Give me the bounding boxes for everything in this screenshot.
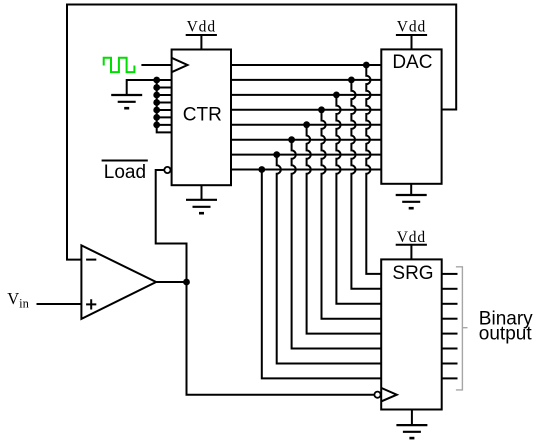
wire: feedback loop from DAC output around top to comparator inverting input	[67, 5, 456, 260]
SRG output stub 2	[442, 288, 458, 290]
SRG output stub 3	[442, 303, 458, 305]
Load label (active low)	[102, 161, 148, 184]
wire: ground to CTR preset bus	[127, 80, 157, 95]
SRG output stub 8	[442, 377, 458, 379]
junction dots on preset bus	[153, 77, 160, 129]
CTR clock input triangle	[172, 58, 188, 72]
branch wire 6 to SRG input 6 (with hops)	[292, 140, 382, 349]
SRG output stub 6	[442, 348, 458, 350]
CTR output bus line 4	[231, 109, 381, 111]
branch wire 7 to SRG input 7 (with hops)	[277, 155, 382, 364]
SRG output stub 5	[442, 333, 458, 335]
Vdd rail above SRG	[396, 229, 427, 260]
branch wire 3 to SRG input 3 (with hops)	[336, 95, 381, 304]
wire: clock source to CTR clock input	[141, 64, 171, 66]
SRG clock input bubble	[374, 392, 380, 398]
wire: Vin to comparator non-inverting input	[37, 303, 82, 305]
CTR output bus line 3	[231, 94, 381, 96]
junction dot at comparator output node	[183, 279, 190, 286]
SRG shift register	[381, 259, 442, 409]
clock source square wave	[104, 58, 135, 72]
Binary output label	[479, 309, 533, 345]
output bracket	[456, 267, 468, 390]
junction dots on output lines	[258, 62, 369, 173]
branch wire 2 to SRG input 2 (with hops)	[351, 80, 381, 289]
comparator non-inverting input mark	[86, 299, 96, 309]
DAC	[381, 49, 441, 183]
CTR output bus line 1	[231, 64, 381, 66]
counter CTR	[172, 50, 231, 186]
svg-text:SRG: SRG	[392, 263, 433, 284]
svg-text:Vdd: Vdd	[397, 19, 426, 36]
SRG output stub 4	[442, 318, 458, 320]
branch wire 4 to SRG input 4 (with hops)	[322, 110, 382, 319]
ground (SRG)	[396, 410, 427, 439]
svg-text:Load: Load	[104, 162, 146, 183]
CTR output bus line 2	[231, 79, 381, 81]
branch wire 1 to SRG input 1 (with hops)	[366, 65, 381, 274]
SRG output stub 1	[442, 273, 458, 275]
branch wire 5 to SRG input 5 (with hops)	[307, 125, 382, 334]
CTR output bus line 6	[231, 139, 381, 141]
CTR output bus line 5	[231, 124, 381, 126]
branch wire 8 to SRG input 8	[262, 170, 381, 379]
Vdd rail above CTR	[186, 19, 217, 50]
ground (clock reference)	[111, 95, 142, 108]
CTR preset input bus with stubs	[157, 80, 172, 132]
Vdd rail above DAC	[396, 19, 427, 50]
svg-text:Vdd: Vdd	[397, 229, 426, 246]
svg-text:Vdd: Vdd	[187, 19, 216, 36]
SRG clock input triangle	[381, 388, 397, 402]
CTR output bus line 7	[231, 154, 381, 156]
SRG output stub 7	[442, 363, 458, 365]
wire: comparator output down to SRG clock input	[187, 282, 375, 395]
Load input bubble on CTR	[164, 167, 170, 173]
wire: comparator output node up to Load input	[156, 170, 187, 282]
svg-text:output: output	[479, 323, 533, 344]
svg-text:DAC: DAC	[392, 52, 432, 73]
svg-text:CTR: CTR	[183, 105, 222, 126]
svg-text:Vin: Vin	[7, 289, 29, 310]
ground (DAC)	[396, 184, 427, 208]
wire: comparator output to junction	[156, 281, 186, 283]
comparator U1	[81, 245, 156, 319]
CTR output bus line 8	[231, 169, 381, 171]
ground (CTR)	[186, 185, 217, 213]
comparator inverting input mark	[86, 259, 96, 261]
